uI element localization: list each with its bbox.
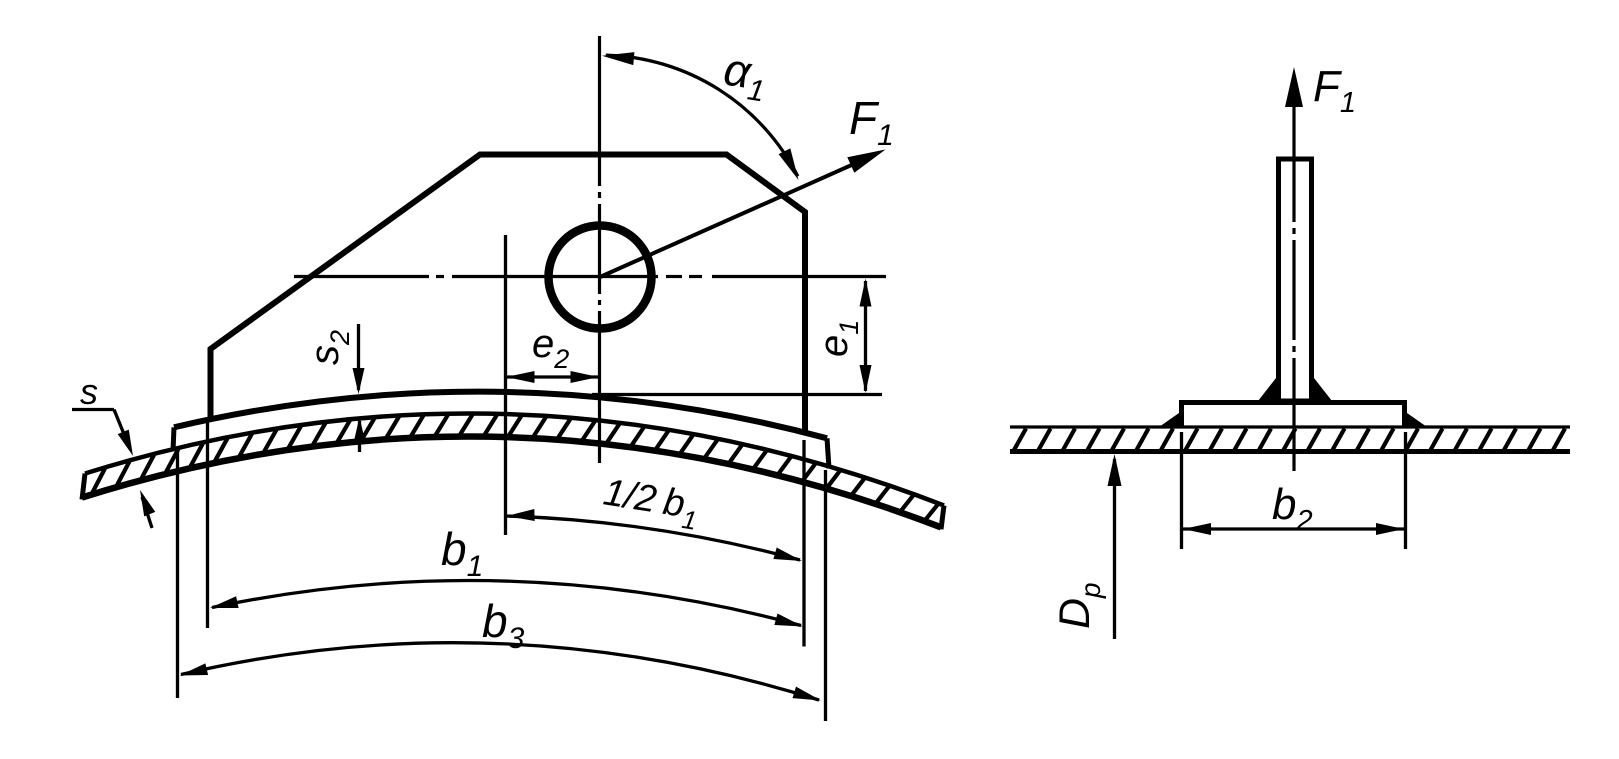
force F1 line (left view): [600, 158, 868, 277]
plate mid extension line: [504, 235, 507, 535]
s leader bar: [72, 408, 114, 411]
s lower arrowhead: [140, 490, 155, 516]
shell top line (section view): [1010, 425, 1570, 428]
svg-text:s: s: [80, 371, 98, 412]
weld fillet bar-right: [1314, 378, 1332, 401]
lug bar (section view): [1279, 159, 1312, 401]
weld fillet pad-left: [1159, 413, 1179, 427]
e1 dimension line: [864, 281, 867, 391]
alpha1 arc bottom arrowhead: [779, 148, 799, 180]
b3 left arrowhead: [180, 663, 209, 675]
s2 upper arrowhead: [353, 368, 365, 394]
b1 left arrowhead: [210, 596, 239, 608]
shell bottom line (section view): [1010, 449, 1570, 454]
half b1 right arrowhead: [773, 548, 802, 562]
weld fillet bar-left: [1258, 378, 1276, 401]
b3 right extension line: [824, 470, 827, 721]
b3 dimension arc: [181, 643, 819, 700]
vertical centerline through hole: [598, 36, 601, 463]
shell left end cap: [82, 474, 85, 500]
b2 dimension line: [1182, 527, 1406, 530]
s2 lower arrow line: [358, 421, 361, 452]
b3 right arrowhead: [793, 687, 822, 701]
F1 arrowhead (section view): [1285, 67, 1303, 107]
F1 axis line (section view): [1292, 96, 1295, 471]
e2 right arrowhead: [571, 371, 599, 383]
b3 left extension line: [176, 450, 179, 698]
shell hatching (left view): [92, 415, 938, 521]
shell right end cap: [941, 506, 944, 530]
shell hatching (section view): [1014, 429, 1565, 451]
e2 left arrowhead: [507, 371, 535, 383]
s leader line: [114, 410, 130, 450]
reinforcing pad left edge: [173, 427, 174, 451]
e1 bottom arrowhead: [860, 365, 872, 393]
b1 dimension arc: [212, 581, 801, 626]
b1 right arrowhead: [774, 614, 803, 627]
shell plate bottom surface (left view): [82, 437, 941, 528]
angle alpha1 dimension arc: [606, 55, 798, 176]
s upper arrowhead: [118, 430, 133, 456]
lifting hole: [549, 226, 652, 329]
Dp arrow line: [1113, 459, 1116, 639]
horizontal centerline through hole: [294, 275, 886, 278]
alpha1 arc top arrowhead: [602, 52, 634, 65]
b2 right arrowhead: [1376, 523, 1404, 535]
b2 right extension line: [1404, 432, 1407, 549]
e2 dimension line: [506, 375, 600, 378]
weld fillet pad-right: [1407, 413, 1427, 427]
s2 lower arrowhead: [354, 417, 366, 443]
Dp arrowhead: [1108, 454, 1122, 486]
reinforcing pad top surface: [174, 392, 827, 439]
b1 left extension line: [206, 422, 209, 628]
s lower arrow line: [142, 497, 152, 528]
b2 left arrowhead: [1183, 523, 1211, 535]
pad plate (section view): [1182, 403, 1405, 427]
shell plate top surface (left view): [85, 413, 944, 505]
half b1 left arrowhead: [507, 509, 535, 521]
force F1 arrowhead (left view): [847, 150, 885, 173]
lug plate outline: [211, 155, 806, 434]
half b1 dimension arc: [506, 516, 801, 560]
s2 upper arrow line: [357, 324, 360, 390]
b1 right extension line: [802, 440, 805, 647]
e1 reference line at pad top level: [592, 393, 882, 396]
e1 top arrowhead: [860, 279, 872, 307]
reinforcing pad right edge: [827, 438, 829, 468]
b2 left extension line: [1180, 432, 1183, 549]
